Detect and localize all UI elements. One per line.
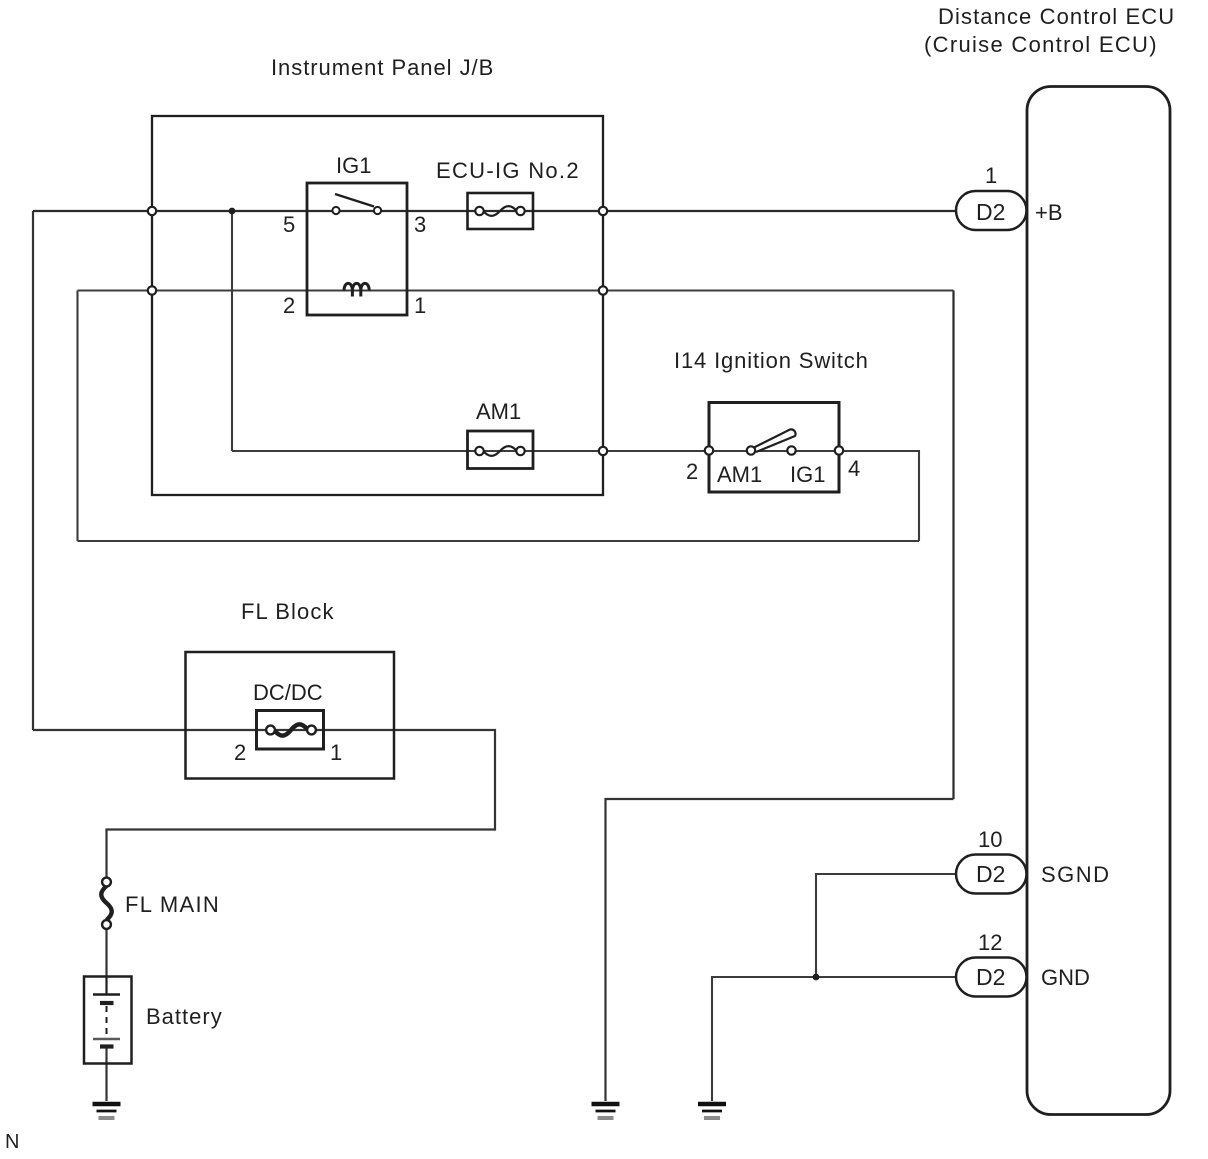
FL Block box: [186, 652, 395, 779]
node open junction I14 right edge: [835, 446, 843, 454]
svg-text:2: 2: [234, 740, 246, 765]
node A solid junction dot wire1: [229, 208, 236, 215]
label AM1 fuse: [476, 399, 521, 424]
svg-text:N: N: [5, 1131, 19, 1153]
node solid junction dot GND/SGND: [813, 974, 820, 981]
label IG1 relay: [336, 153, 371, 178]
wire AM1 branch drop from node A: [231, 211, 233, 451]
label N page marker: [5, 1131, 19, 1153]
wire AM1 row horizontal to ignition switch: [232, 450, 839, 452]
wire W1 +B feed horizontal to D2 pin 1: [33, 210, 956, 212]
relay IG1 coil: [344, 283, 369, 296]
switch I14 contact IG1: [787, 446, 795, 454]
wire ground run from relay pin1 to ground G2: [606, 799, 954, 1101]
label Instrument Panel J/B: [271, 55, 494, 80]
wire W2 right leg down to ground run: [952, 291, 954, 800]
battery symbol: [93, 977, 120, 1047]
wire GND from D2 pin 12 to ground G3: [712, 977, 956, 1101]
connector D2 pin 10 oval: [956, 855, 1027, 894]
svg-text:Instrument Panel J/B: Instrument Panel J/B: [271, 55, 494, 80]
svg-text:3: 3: [414, 212, 426, 237]
pin 1 relay IG1: [414, 293, 426, 318]
pin 12 D2: [978, 930, 1002, 955]
label Battery: [146, 1004, 223, 1029]
pin 1 D2: [985, 163, 997, 188]
switch I14 ignition box: [709, 403, 839, 493]
pin 3 relay IG1: [414, 212, 426, 237]
label DC/DC: [253, 680, 323, 705]
ECU connector body Distance Control ECU: [1027, 87, 1170, 1115]
node open junction J/B right AM1 row: [599, 447, 607, 455]
label I14 Ignition Switch: [674, 348, 869, 373]
svg-text:Distance Control ECU: Distance Control ECU: [938, 4, 1175, 29]
svg-text:10: 10: [978, 827, 1002, 852]
wire ignition switch pin4 to loop: [839, 451, 919, 541]
svg-text:D2: D2: [976, 964, 1005, 990]
node open junction J/B left wire1: [148, 207, 156, 215]
svg-text:AM1: AM1: [476, 399, 521, 424]
svg-text:AM1: AM1: [717, 462, 762, 487]
wire SGND from D2 pin 10: [816, 874, 956, 977]
fuse AM1 box: [468, 431, 534, 469]
svg-text:SGND: SGND: [1041, 862, 1111, 887]
svg-text:2: 2: [283, 293, 295, 318]
svg-text:1: 1: [330, 740, 342, 765]
svg-text:1: 1: [414, 293, 426, 318]
svg-text:2: 2: [686, 459, 698, 484]
svg-text:4: 4: [848, 456, 860, 481]
wire W3 battery feed through DC/DC fuse: [33, 730, 495, 878]
svg-text:1: 1: [985, 163, 997, 188]
svg-text:I14 Ignition Switch: I14 Ignition Switch: [674, 348, 869, 373]
label IG1 terminal: [790, 462, 825, 487]
svg-text:IG1: IG1: [336, 153, 371, 178]
node open junction J/B right wire2: [599, 286, 607, 294]
label Distance Control ECU: [924, 4, 1175, 57]
pin 5 relay IG1: [283, 212, 295, 237]
label +B: [1035, 200, 1063, 225]
fuse DC/DC box: [257, 711, 324, 750]
svg-text:Battery: Battery: [146, 1004, 223, 1029]
connector D2 pin 12 oval: [956, 958, 1027, 997]
pin 2 ignition switch: [686, 459, 698, 484]
switch I14 lever: [754, 429, 796, 452]
fusible link FL MAIN element: [101, 878, 112, 929]
wire FL MAIN to battery: [105, 929, 107, 977]
svg-text:12: 12: [978, 930, 1002, 955]
svg-text:ECU-IG No.2: ECU-IG No.2: [436, 158, 580, 183]
ground G2: [592, 1104, 620, 1118]
switch I14 contact AM1: [747, 446, 755, 454]
svg-text:(Cruise Control ECU): (Cruise Control ECU): [924, 32, 1158, 57]
ground G1 battery: [93, 1104, 121, 1118]
svg-text:DC/DC: DC/DC: [253, 680, 323, 705]
node open junction J/B left wire2: [148, 286, 156, 294]
label SGND: [1041, 862, 1111, 887]
wire battery negative to ground G1: [105, 1046, 107, 1101]
ground G3: [698, 1104, 726, 1118]
wire loop bottom run: [78, 540, 920, 542]
fuse ECU-IG No.2 element: [475, 206, 524, 216]
pin 4 ignition switch: [848, 456, 860, 481]
node open junction J/B right wire1: [599, 207, 607, 215]
label AM1 terminal: [717, 462, 762, 487]
svg-text:5: 5: [283, 212, 295, 237]
relay IG1 box: [307, 183, 407, 315]
pin 2 relay IG1: [283, 293, 295, 318]
wire W2 relay coil row horizontal: [78, 289, 954, 291]
label ECU-IG No.2: [436, 158, 580, 183]
pin 10 D2: [978, 827, 1002, 852]
fusible link DC/DC element: [266, 724, 316, 735]
svg-text:+B: +B: [1035, 200, 1063, 225]
svg-text:FL Block: FL Block: [241, 599, 335, 624]
node open junction I14 left edge: [705, 446, 713, 454]
svg-text:FL MAIN: FL MAIN: [125, 892, 220, 917]
relay IG1 switch contacts and lever: [332, 194, 381, 214]
junction box Instrument Panel J/B outline: [152, 116, 603, 495]
svg-text:GND: GND: [1041, 965, 1090, 990]
pin 2 DC/DC: [234, 740, 246, 765]
fuse AM1 element: [475, 446, 524, 456]
wire W1 +B feed: left drop from node A down to DC/DC row: [32, 211, 34, 730]
connector D2 pin 1 oval: [956, 191, 1027, 230]
fuse ECU-IG No.2 box: [468, 193, 534, 229]
svg-text:D2: D2: [976, 199, 1005, 225]
svg-text:IG1: IG1: [790, 462, 825, 487]
label FL Block: [241, 599, 335, 624]
wire W2 left leg down to loop bottom: [76, 291, 78, 542]
battery box: [84, 977, 132, 1064]
label FL MAIN: [125, 892, 220, 917]
svg-text:D2: D2: [976, 861, 1005, 887]
pin 1 DC/DC: [330, 740, 342, 765]
label GND: [1041, 965, 1090, 990]
